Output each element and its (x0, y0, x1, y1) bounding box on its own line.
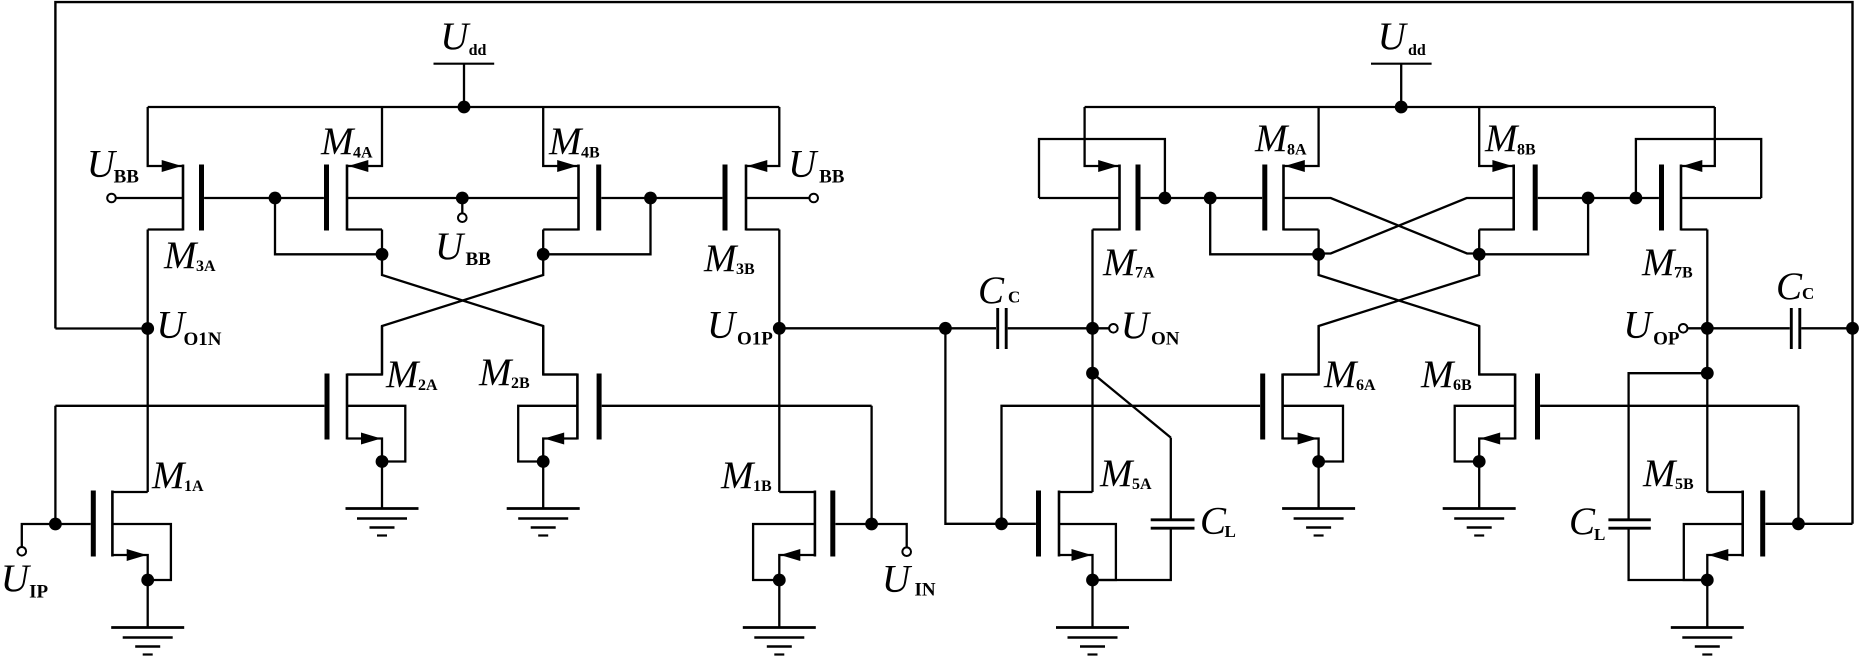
transistor M8B channel (1512, 165, 1515, 231)
svg-text:2B: 2B (511, 375, 530, 392)
wire input gate line U_IP to M2A gate (55, 405, 324, 407)
transistor M5A channel (1058, 491, 1061, 557)
ground below M1B (743, 626, 816, 629)
svg-text:8A: 8A (1287, 142, 1307, 159)
wire stub to U_ON terminal (1093, 327, 1110, 329)
wire M5A source to ground (1091, 580, 1093, 628)
wire U_IN junction to terminal (872, 524, 907, 548)
wire C_L left bottom lead (1093, 530, 1171, 581)
svg-text:U: U (435, 225, 466, 268)
capacitor C_C right plate 1 (1790, 308, 1793, 349)
transistor M1B source arrow (780, 549, 800, 561)
wire M7B gate-bulk tie loop (1636, 139, 1761, 198)
wire M5B source to ground (1706, 580, 1708, 628)
wire U_IP junction to M1A gate (55, 523, 90, 525)
wire U_BB left to M3A bulk (116, 197, 184, 199)
transistor M2B gate bar (597, 374, 602, 440)
svg-text:7A: 7A (1135, 265, 1155, 282)
transistor M3A source arrow (162, 160, 182, 172)
transistor M7B gate bar (1659, 165, 1664, 231)
node M5A/M6A gate junction (995, 517, 1008, 530)
node A (M4A drain junction) (376, 248, 389, 261)
wire M7B bulk lead (1681, 197, 1761, 199)
svg-text:U: U (707, 304, 738, 347)
wire M7A gate-bulk tie loop (1039, 139, 1165, 198)
svg-text:IP: IP (29, 582, 48, 603)
wire U_IN riser (870, 406, 872, 524)
svg-text:6A: 6A (1356, 377, 1376, 394)
svg-text:U: U (1, 557, 32, 600)
wire M8B bulk cross-couple to node C (1319, 198, 1514, 254)
svg-text:4A: 4A (353, 145, 373, 162)
svg-text:L: L (1225, 522, 1236, 541)
svg-text:M: M (703, 237, 739, 280)
wire M4A bulk to M4B bulk (347, 197, 579, 199)
transistor M5A gate bar (1036, 491, 1041, 557)
wire M6B gate line (1540, 405, 1798, 407)
svg-text:U: U (1623, 304, 1654, 347)
capacitor C_L left top plate (1151, 518, 1195, 521)
transistor M8A gate bar (1262, 165, 1267, 231)
wire supply rail (second stage) (1085, 106, 1715, 108)
svg-text:M: M (163, 234, 199, 277)
wire right border drop to M5B gate (1851, 328, 1853, 524)
wire gate junction down to M8A drain node (1210, 198, 1318, 254)
svg-text:M: M (548, 120, 584, 163)
wire stub to U_OP terminal (1688, 327, 1708, 329)
svg-text:U: U (882, 557, 913, 600)
wire U_O1P to C_C left (779, 327, 996, 329)
transistor M7B channel (1680, 165, 1683, 231)
svg-text:7B: 7B (1674, 265, 1693, 282)
transistor M1B source-bulk junction (773, 574, 786, 587)
wire U_IN junction to M1B gate (835, 523, 871, 525)
transistor M6B bulk lead (1455, 406, 1515, 462)
wire M4A drain down to cross-couple node A (381, 230, 383, 255)
transistor M5B source arrow (1708, 549, 1728, 561)
transistor M1A source arrow (127, 549, 147, 561)
node D (M8B drain junction) (1473, 248, 1486, 261)
svg-text:IN: IN (915, 579, 936, 600)
svg-text:L: L (1594, 525, 1605, 544)
transistor M5B source-bulk junction (1701, 574, 1714, 587)
wire C_L right bottom lead (1629, 530, 1708, 581)
wire cross-couple node C to M6B drain (second stage X) (1319, 254, 1516, 374)
transistor M2B source-bulk junction (537, 455, 550, 468)
svg-text:8B: 8B (1517, 142, 1536, 159)
wire gate junction down to M8B drain node (1479, 198, 1588, 254)
wire M8B gate to M7B gate (1538, 197, 1659, 199)
transistor M7A drain lead (1093, 228, 1120, 230)
node M5B/M6B gate junction (1792, 517, 1805, 530)
wire M2A drain riser (381, 326, 383, 375)
capacitor C_L left bottom plate (1151, 527, 1195, 530)
node M7A/M8A gate junction (1204, 192, 1217, 205)
wire U_IP riser (54, 406, 56, 524)
transistor M2B bulk lead (518, 406, 577, 462)
transistor M8B source arrow (1492, 160, 1512, 172)
transistor M3B channel (745, 165, 748, 231)
node M7A gate-bulk junction (1159, 192, 1172, 205)
transistor M4A source lead from rail (347, 107, 382, 166)
svg-text:C: C (1008, 288, 1020, 307)
transistor M2B channel (576, 374, 579, 440)
transistor M2A source-bulk junction (376, 455, 389, 468)
svg-text:C: C (1802, 284, 1814, 303)
wire M7B drain to U_OP (1706, 230, 1708, 493)
transistor M8B source lead from rail (1479, 107, 1514, 166)
transistor M1B bulk lead (753, 524, 815, 580)
capacitor C_C left plate 2 (1005, 308, 1008, 349)
svg-text:M: M (1323, 353, 1359, 396)
svg-text:U: U (788, 143, 819, 186)
wire M2A source to ground (381, 462, 383, 509)
svg-text:1A: 1A (184, 478, 204, 495)
ground below M2B (507, 507, 580, 510)
node U_OP (1701, 322, 1714, 335)
svg-text:M: M (478, 351, 514, 394)
svg-text:M: M (720, 454, 756, 497)
terminal U_ON circle (1109, 324, 1118, 333)
wire M8A drain down to node C (1317, 230, 1319, 255)
wire M5A gate feed (down from C_C tap) (945, 328, 1036, 524)
transistor M2A channel (346, 374, 349, 440)
terminal U_IN circle (902, 547, 911, 556)
svg-text:M: M (1641, 241, 1677, 284)
transistor M1A gate bar (91, 491, 96, 557)
transistor M6A source-bulk junction (1312, 455, 1325, 468)
svg-text:U: U (1378, 15, 1409, 58)
wire M4B gate to M3B gate (601, 197, 722, 199)
transistor M5B source lead (1707, 555, 1742, 580)
svg-text:C: C (1569, 500, 1596, 543)
transistor M2A gate bar (325, 374, 330, 440)
wire gate junction down to M4B drain node (543, 198, 650, 254)
ground below M6B (1443, 507, 1516, 510)
node U_dd junction on rail 2 (1395, 101, 1408, 114)
svg-text:M: M (1254, 117, 1290, 160)
wire U_dd to rail (first stage) (463, 64, 465, 107)
transistor M8A channel (1282, 165, 1285, 231)
wire U_dd to rail (second stage) (1400, 64, 1402, 107)
svg-text:3A: 3A (196, 258, 216, 275)
ground below M5A (1056, 626, 1129, 629)
svg-text:O1N: O1N (184, 329, 222, 350)
wire M6B drain riser (1478, 326, 1480, 375)
transistor M8A source lead from rail (1284, 107, 1319, 166)
transistor M7B source arrow (1682, 160, 1702, 172)
wire M6B gate feed riser (1797, 406, 1799, 524)
wire M2B source to ground (542, 462, 544, 509)
terminal U_OP circle (1679, 324, 1688, 333)
wire cross-couple node A to M2B drain (first stage X) (382, 254, 577, 374)
transistor M5A drain lead (1059, 491, 1093, 493)
capacitor C_C right plate 2 (1798, 308, 1801, 349)
svg-text:dd: dd (1408, 42, 1426, 59)
svg-text:OP: OP (1653, 329, 1680, 350)
transistor M8A source arrow (1285, 160, 1305, 172)
terminal U_IP circle (18, 547, 27, 556)
wire U_IP junction to terminal (22, 524, 56, 548)
node M7B gate-bulk junction (1630, 192, 1643, 205)
transistor M4B gate bar (596, 165, 601, 231)
transistor M4B source arrow (557, 160, 577, 172)
transistor M6B channel (1514, 374, 1517, 440)
wire M8A bulk cross-couple to node D (1284, 198, 1480, 254)
node M3A/M4A gate junction (269, 192, 282, 205)
wire cross-couple node B to M2A drain (first stage X) (347, 254, 543, 374)
transistor M1B gate bar (830, 491, 835, 557)
transistor M5B drain lead (1707, 491, 1742, 493)
node C (M8A drain junction) (1312, 248, 1325, 261)
node U_IN gate junction (865, 518, 878, 531)
svg-text:M: M (1102, 241, 1138, 284)
wire supply rail (first stage) (148, 106, 780, 108)
transistor M6A bulk lead (1283, 406, 1343, 462)
transistor M4A channel (346, 165, 349, 231)
svg-text:C: C (1776, 265, 1803, 308)
transistor M2B source lead (543, 439, 577, 462)
transistor M6B source-bulk junction (1473, 455, 1486, 468)
node M4B/M3B gate junction (644, 192, 657, 205)
svg-text:M: M (1099, 452, 1135, 495)
svg-text:C: C (978, 269, 1005, 312)
transistor M1A source-bulk junction (141, 574, 154, 587)
transistor M7A source arrow (1098, 160, 1118, 172)
wire M6A drain riser (1317, 326, 1319, 375)
transistor M2A drain lead (347, 373, 382, 375)
svg-text:M: M (1484, 117, 1520, 160)
transistor M3A drain lead (148, 228, 183, 230)
ground below M6A (1282, 507, 1355, 510)
svg-text:O1P: O1P (737, 329, 773, 350)
wire M6A gate feed riser (1002, 406, 1261, 524)
transistor M7B source lead from rail (1681, 107, 1715, 166)
capacitor C_L right top plate (1608, 518, 1650, 521)
node U_ON (1086, 322, 1099, 335)
transistor M3B source lead from rail (746, 107, 779, 166)
svg-text:M: M (151, 454, 187, 497)
transistor M7A channel (1118, 165, 1121, 231)
svg-text:4B: 4B (581, 145, 600, 162)
terminal U_BB left circle (107, 194, 116, 203)
ground below M2A (346, 507, 419, 510)
svg-text:M: M (320, 120, 356, 163)
wire M3A gate to M4A gate (204, 197, 324, 199)
node U_OP load tap (1701, 367, 1714, 380)
wire M7A bulk lead (1039, 197, 1120, 199)
transistor M7B drain lead (1681, 228, 1707, 230)
svg-text:2A: 2A (418, 377, 438, 394)
transistor M2B source arrow (544, 433, 564, 445)
wire M8B drain down to node D (1478, 230, 1480, 255)
wire U_O1N feedback stub to left border (55, 327, 147, 329)
svg-text:M: M (1642, 452, 1678, 495)
terminal U_BB right circle (809, 194, 818, 203)
wire U_OP to C_C right (1707, 327, 1790, 329)
transistor M5A bulk lead (1059, 524, 1116, 580)
node U_O1P (773, 322, 786, 335)
transistor M5B gate bar (1760, 491, 1765, 557)
capacitor C_L right bottom plate (1608, 527, 1650, 530)
transistor M4B channel (577, 165, 580, 231)
transistor M6A source lead (1283, 439, 1319, 462)
wire M6A source to ground (1317, 462, 1319, 509)
wire top+left+right border feedback loop (U_O1N to right C_C) (55, 2, 1852, 328)
power symbol U_dd (second stage) bar (1371, 63, 1432, 65)
svg-text:1B: 1B (753, 478, 772, 495)
wire gate junction down to M4A drain node (275, 198, 382, 254)
transistor M1A source lead (112, 555, 147, 580)
node M5A gate tap on C_C wire (939, 322, 952, 335)
wire M3B bulk to U_BB right (746, 197, 810, 199)
ground below M5B (1671, 626, 1744, 629)
wire M2B gate line to U_IN riser (602, 405, 872, 407)
transistor M8B drain lead (1479, 228, 1514, 230)
wire M6B source to ground (1478, 462, 1480, 509)
wire slant U_ON to C_L left (1093, 373, 1171, 437)
node U_O1N (141, 322, 154, 335)
transistor M5A source arrow (1072, 549, 1092, 561)
transistor M5A source-bulk junction (1086, 574, 1099, 587)
terminal U_BB center circle (458, 213, 467, 222)
transistor M6B drain lead (1479, 373, 1515, 375)
transistor M6A drain lead (1283, 373, 1319, 375)
svg-text:dd: dd (469, 42, 487, 59)
node center U_BB tap (456, 192, 469, 205)
transistor M1B drain lead (779, 491, 815, 493)
transistor M1A bulk lead (112, 524, 170, 580)
svg-text:3B: 3B (736, 261, 755, 278)
svg-text:U: U (1121, 304, 1152, 347)
transistor M6B source arrow (1480, 433, 1500, 445)
transistor M6A channel (1281, 374, 1284, 440)
transistor M5A source lead (1059, 555, 1093, 580)
svg-text:M: M (385, 353, 421, 396)
transistor M3A channel (182, 165, 185, 231)
wire M4B drain down to cross-couple node B (542, 230, 544, 255)
wire M2B drain riser (542, 326, 544, 375)
node M8B/M7B gate junction (1582, 192, 1595, 205)
transistor M7A source lead from rail (1085, 107, 1120, 166)
transistor M4B source lead from rail (543, 107, 578, 166)
wire C_C left to U_ON (1008, 327, 1093, 329)
transistor M2A bulk lead (347, 406, 405, 462)
ground below M1A (111, 626, 184, 629)
node U_dd junction on rail 1 (458, 101, 471, 114)
svg-text:ON: ON (1151, 329, 1180, 350)
transistor M3A gate bar (199, 165, 204, 231)
svg-text:BB: BB (819, 167, 845, 188)
transistor M4B drain lead (543, 228, 578, 230)
node U_IP gate junction (49, 518, 62, 531)
wire node U_O1P vertical (M3B drain to M1B drain) (778, 230, 780, 493)
node U_ON load tap (1086, 367, 1099, 380)
transistor M6B gate bar (1535, 374, 1540, 440)
wire M7A drain to U_ON (1091, 230, 1093, 493)
wire U_OP tap to C_L right (1629, 373, 1708, 518)
svg-text:C: C (1200, 499, 1227, 542)
transistor M5B bulk lead (1684, 524, 1743, 580)
transistor M2B drain lead (543, 373, 577, 375)
transistor M7A gate bar (1136, 165, 1141, 231)
transistor M4A gate bar (324, 165, 329, 231)
wire stub to center U_BB terminal (461, 198, 463, 214)
transistor M1A channel (111, 491, 114, 557)
transistor M6A gate bar (1260, 374, 1265, 440)
svg-text:BB: BB (114, 167, 140, 188)
transistor M3A source lead from rail (148, 107, 183, 166)
svg-text:U: U (440, 15, 471, 58)
capacitor C_C left plate 1 (996, 308, 999, 349)
transistor M3B drain lead (746, 228, 779, 230)
transistor M1B source lead (779, 555, 815, 580)
transistor M4A drain lead (347, 228, 382, 230)
wire M5B gate line to right border (1765, 523, 1852, 525)
svg-text:6B: 6B (1453, 377, 1472, 394)
transistor M4A source arrow (348, 160, 368, 172)
wire M1B source to ground (778, 580, 780, 628)
transistor M3B gate bar (723, 165, 728, 231)
transistor M2A source lead (347, 439, 382, 462)
svg-text:5B: 5B (1675, 476, 1694, 493)
transistor M3B source arrow (747, 160, 767, 172)
transistor M1A drain lead (112, 491, 147, 493)
transistor M6A source arrow (1298, 433, 1318, 445)
power symbol U_dd (first stage) bar (434, 63, 495, 65)
wire cross-couple node D to M6A drain (second stage X) (1283, 254, 1480, 374)
wire C_L left top lead (1170, 438, 1172, 519)
svg-text:BB: BB (466, 249, 492, 270)
node B (M4B drain junction) (537, 248, 550, 261)
transistor M8B gate bar (1533, 165, 1538, 231)
wire C_C right to border (1801, 327, 1852, 329)
wire M7A gate to M8A gate (1141, 197, 1263, 199)
svg-text:5A: 5A (1132, 476, 1152, 493)
transistor M8A drain lead (1284, 228, 1319, 230)
transistor M1B channel (814, 491, 817, 557)
transistor M6B source lead (1479, 439, 1515, 462)
node C_C right border junction (1846, 322, 1859, 335)
transistor M2A source arrow (361, 433, 381, 445)
transistor M5B channel (1741, 491, 1744, 557)
svg-text:M: M (1420, 353, 1456, 396)
wire M1A source to ground (147, 580, 149, 628)
wire node U_O1N vertical (M3A drain to M1A drain) (147, 230, 149, 493)
